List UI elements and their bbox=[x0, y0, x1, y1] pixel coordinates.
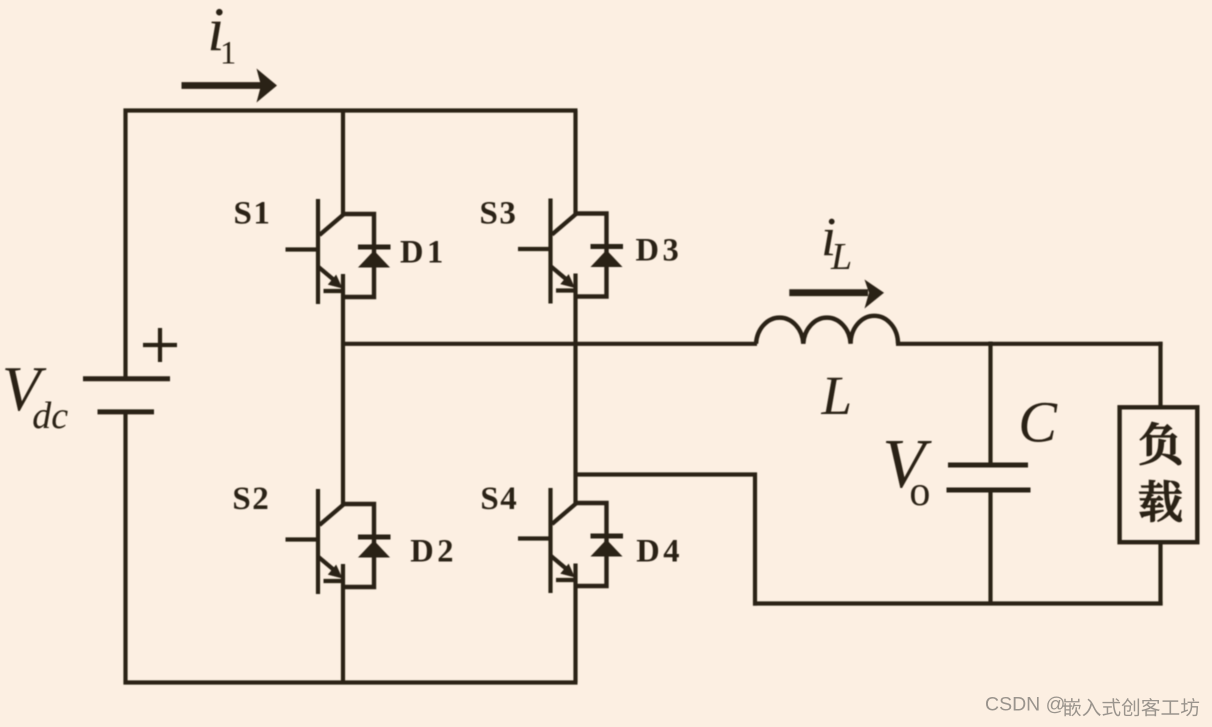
wire: top DC rail bbox=[124, 108, 578, 112]
svg-text:L: L bbox=[821, 365, 853, 426]
diode D2 bbox=[358, 537, 391, 558]
battery Vdc negative plate bbox=[98, 409, 155, 414]
svg-text:S3: S3 bbox=[480, 195, 518, 231]
wire: capacitor bottom lead bbox=[988, 493, 992, 606]
svg-text:CSDN @: CSDN @ bbox=[985, 694, 1065, 716]
svg-text:dc: dc bbox=[32, 395, 68, 437]
arrow: i1 direction bbox=[182, 69, 278, 103]
wire: load bottom lead bbox=[1158, 542, 1162, 606]
diode D3 bbox=[591, 247, 624, 268]
label: load character 负 bbox=[1140, 422, 1181, 465]
wire: right leg middle segment (node B) bbox=[573, 274, 577, 505]
wire: load top lead bbox=[1158, 342, 1162, 407]
svg-text:D1: D1 bbox=[400, 235, 447, 271]
wire: left source lead (top) bbox=[123, 109, 127, 380]
transistor S2 (IGBT) bbox=[286, 489, 344, 594]
svg-text:D3: D3 bbox=[636, 233, 683, 269]
wire: right leg upper segment bbox=[573, 111, 577, 215]
wire: anti-parallel branch of D1 bbox=[343, 214, 374, 297]
label iL (inductor current) bbox=[821, 206, 852, 278]
wire: right leg lower segment bbox=[573, 564, 577, 683]
label i1 (input current) bbox=[207, 0, 236, 71]
transistor S4 (IGBT) bbox=[518, 488, 576, 593]
wire: capacitor top lead bbox=[988, 342, 992, 463]
wire: bottom output run bbox=[753, 601, 1163, 605]
wire: inductor to load corner bbox=[896, 342, 1163, 346]
wire: anti-parallel branch of D3 bbox=[576, 214, 607, 297]
capacitor C top plate bbox=[948, 463, 1028, 468]
svg-text:o: o bbox=[909, 469, 930, 515]
svg-text:D2: D2 bbox=[410, 534, 457, 570]
arrow: iL direction bbox=[789, 280, 884, 309]
transistor S3 (IGBT) bbox=[518, 199, 576, 304]
svg-text:1: 1 bbox=[220, 36, 236, 72]
transistor S1 (IGBT) bbox=[286, 199, 344, 304]
diode D1 bbox=[358, 247, 391, 268]
wire: bottom DC rail bbox=[124, 680, 578, 684]
wire: bridge output to inductor bbox=[343, 342, 757, 346]
svg-text:D4: D4 bbox=[636, 534, 683, 570]
svg-text:S2: S2 bbox=[232, 481, 270, 517]
wire: right-leg node B to lower-right run bbox=[576, 472, 758, 476]
load box (负载) bbox=[1120, 407, 1198, 542]
wire: anti-parallel branch of D4 bbox=[576, 503, 607, 586]
svg-text:C: C bbox=[1018, 390, 1058, 455]
diode D4 bbox=[591, 536, 624, 557]
wire: left leg lower segment bbox=[341, 564, 345, 683]
svg-text:S4: S4 bbox=[480, 481, 518, 517]
label Vo (output voltage) bbox=[882, 426, 932, 515]
wire: anti-parallel branch of D2 bbox=[343, 504, 374, 587]
battery Vdc positive plate bbox=[83, 376, 170, 381]
svg-text:S1: S1 bbox=[234, 195, 272, 231]
label: load character 载 bbox=[1139, 480, 1181, 522]
watermark: CSDN @嵌入式创客工坊 bbox=[985, 694, 1199, 717]
capacitor C bottom plate bbox=[947, 488, 1031, 493]
wire: vertical drop at x=755 bbox=[753, 473, 757, 606]
inductor L bbox=[756, 316, 898, 344]
label Vdc bbox=[2, 354, 68, 437]
battery plus sign bbox=[143, 328, 177, 362]
wire: left leg upper segment bbox=[341, 111, 345, 216]
wire: left source lead (bottom) bbox=[123, 412, 127, 685]
wire: left leg middle segment (node A) bbox=[341, 274, 345, 505]
svg-text:L: L bbox=[830, 236, 852, 278]
